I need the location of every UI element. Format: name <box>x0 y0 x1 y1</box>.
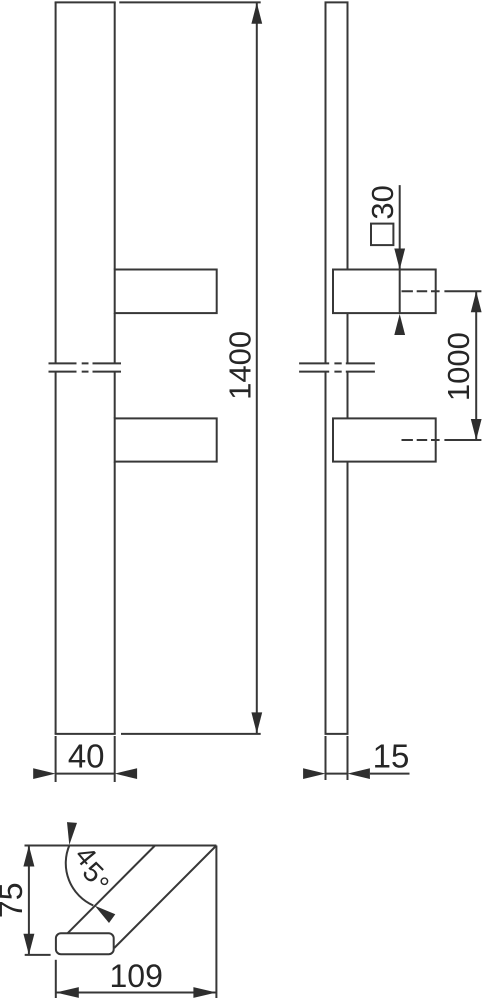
svg-text:75: 75 <box>0 883 29 919</box>
front view lower mounting block <box>115 418 217 461</box>
front view break line lower <box>49 371 122 373</box>
dim 75 dimension line <box>28 846 30 955</box>
dim 40 extension lines <box>56 736 115 782</box>
side view bar left edge <box>325 2 327 734</box>
dim 109 left arrow <box>56 987 79 998</box>
dim 1400 bottom arrow <box>251 712 262 733</box>
angle 45 bottom arrow <box>95 906 116 923</box>
dim 15 left arrow <box>303 768 325 779</box>
dim 40 left arrow <box>33 768 55 779</box>
svg-text:40: 40 <box>68 738 105 775</box>
front view bar bottom edge <box>55 733 116 735</box>
dim 30 dimension line <box>399 185 401 313</box>
angle 45 arc <box>66 845 94 906</box>
dim 30 upper arrow <box>394 249 405 270</box>
dim 75 top arrow <box>23 846 34 867</box>
dim 75 bottom extension line <box>25 954 51 956</box>
dim 40 right arrow <box>115 768 137 779</box>
dim 40 dimension line <box>56 773 115 775</box>
side view break line upper <box>299 362 375 364</box>
dim 1000 top arrow <box>471 291 482 312</box>
section view neck diagonal right <box>114 846 216 949</box>
dim 109 right extension line <box>215 846 217 999</box>
front view break line upper <box>49 362 122 364</box>
front view bar left edge <box>55 2 57 734</box>
section view grip rounded rect <box>56 933 114 954</box>
dim 109 left extension line <box>55 960 57 998</box>
dim 75 bottom arrow <box>23 934 34 955</box>
side view bar right edge <box>347 2 349 734</box>
front view bar top edge <box>55 1 116 3</box>
dim 30 lower arrow <box>394 314 405 335</box>
dim 1400 top arrow <box>251 3 262 24</box>
dim 1000 bottom arrow <box>471 419 482 440</box>
dim 109 right arrow <box>193 987 216 998</box>
dim 1400 top extension line <box>119 1 260 3</box>
dim 15 extension lines <box>326 736 348 780</box>
svg-text:109: 109 <box>110 958 163 994</box>
lower block centre dashed line <box>402 439 482 441</box>
section view door line <box>25 845 217 847</box>
side view break line lower <box>299 371 375 373</box>
side view bar top edge <box>325 1 349 3</box>
dim 1400 dimension line <box>256 2 258 734</box>
dim 1000 dimension line <box>475 291 477 440</box>
angle 45 top arrow <box>67 822 77 845</box>
dim 15 right arrow <box>348 768 370 779</box>
svg-text:30: 30 <box>365 185 400 219</box>
svg-text:15: 15 <box>373 738 410 775</box>
upper block centre dashed line <box>402 290 482 292</box>
front view bar right edge <box>114 2 116 734</box>
side view upper mounting block <box>333 270 436 314</box>
front view upper mounting block <box>115 270 217 314</box>
svg-text:1400: 1400 <box>223 331 258 400</box>
dim 15 tail line <box>370 773 410 775</box>
dim 109 dimension line <box>56 992 217 994</box>
dim 15 dimension line <box>326 773 348 775</box>
square section symbol <box>371 224 393 246</box>
svg-text:1000: 1000 <box>441 332 476 401</box>
dim 1400 bottom extension line <box>121 733 261 735</box>
side view lower mounting block <box>333 418 436 461</box>
side view bar bottom edge <box>325 733 349 735</box>
section view neck diagonal left <box>68 846 156 934</box>
